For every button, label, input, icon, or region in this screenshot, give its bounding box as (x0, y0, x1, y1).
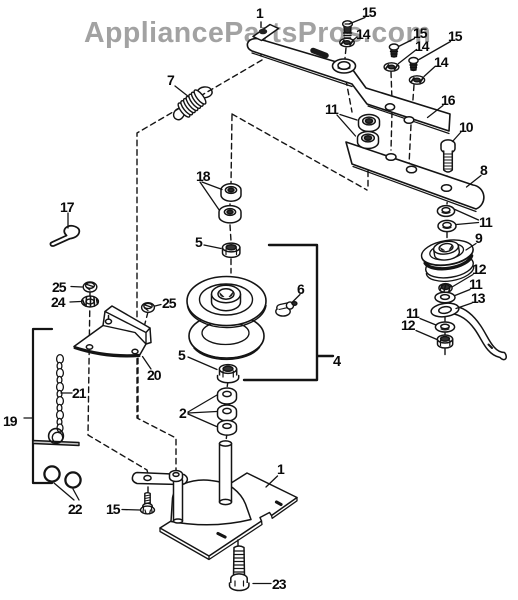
idler rod 13 (430, 302, 506, 360)
dashed center line pulley stack (226, 115, 232, 441)
bracket bar 16 (247, 39, 450, 134)
nut 5a (223, 243, 240, 257)
spacer washer 11 lower (358, 132, 379, 149)
bar 16 boss hole (333, 59, 356, 73)
svg-text:19: 19 (3, 413, 18, 429)
bracket line item 4 (244, 245, 333, 380)
svg-text:23: 23 (272, 576, 287, 592)
svg-text:21: 21 (72, 385, 87, 401)
flat washer 11c (435, 292, 455, 302)
dashed leader top-left of bar 16 (260, 22, 262, 57)
svg-text:14: 14 (415, 38, 430, 54)
svg-text:17: 17 (60, 199, 75, 215)
cotter pin 17 (50, 226, 79, 246)
svg-text:25: 25 (162, 295, 177, 311)
bar 8 hole b (407, 166, 417, 173)
link plate washer (170, 471, 183, 482)
flat washer 11d (435, 322, 454, 332)
flat washer 11 right b (438, 220, 456, 231)
dashed line bolt 10 to arm hole (447, 176, 448, 182)
svg-text:12: 12 (472, 261, 487, 277)
center post on plate (220, 441, 232, 505)
bolt 15c (409, 58, 418, 71)
dashed line pulley stack to idler arm hole (232, 114, 368, 190)
rings 22 (44, 466, 59, 481)
nut 5b (218, 365, 239, 383)
bolt 15a (343, 21, 353, 38)
svg-text:15: 15 (106, 501, 121, 517)
bar 16 hole c (404, 117, 414, 124)
lock washer 14a (340, 38, 354, 46)
bolt 15 bottom (141, 493, 155, 514)
washer 18b (219, 206, 241, 223)
flat washer 11 right a (437, 206, 454, 217)
lock washer 14b (384, 63, 399, 71)
chain anchor bar (33, 429, 79, 446)
pulley 9 (420, 237, 478, 285)
svg-text:5: 5 (178, 347, 186, 363)
belt guard hump on plate (171, 480, 251, 525)
washer 2a (218, 388, 237, 404)
lock nut 12a (439, 284, 452, 293)
flange nut 25b (142, 303, 155, 313)
svg-text:4: 4 (333, 354, 341, 370)
bar 8 hole a (386, 154, 396, 161)
svg-text:12: 12 (401, 317, 416, 333)
chain bracket 20 (74, 306, 151, 356)
dashed line bolt 15a to boss (345, 48, 346, 58)
flange nut 25a (83, 282, 97, 292)
lock washer 14c (409, 76, 424, 84)
link plate (132, 473, 187, 485)
dashed line arm hole to washers 11 (447, 193, 448, 204)
svg-text:2: 2 (179, 405, 187, 421)
bar 16 slot (313, 51, 326, 56)
dashed line washers 11 to pulley 9 (446, 232, 448, 239)
svg-text:13: 13 (471, 290, 486, 306)
bolt 15b (389, 44, 398, 57)
pulley 4 double sheave (187, 277, 266, 360)
bolt 23 (230, 546, 249, 590)
svg-text:25: 25 (52, 279, 67, 295)
bar 16 end tab (253, 25, 279, 41)
dashed line right nut 25 column (138, 312, 148, 418)
svg-text:1: 1 (256, 5, 264, 21)
chain 21 (57, 355, 64, 432)
svg-text:5: 5 (195, 234, 203, 250)
dashed center line through spring 7 (137, 60, 262, 470)
washer 2c (218, 420, 237, 435)
dashed line bar16 boss to washer 11 (346, 80, 352, 112)
grease fitting 6 (276, 302, 297, 316)
svg-text:7: 7 (167, 72, 175, 88)
dashed line left nut 25 column (88, 292, 148, 474)
svg-text:6: 6 (297, 281, 305, 297)
dashed line bolt 15b column (391, 72, 392, 150)
dashed center line pulley 9 stack (444, 303, 446, 356)
hex nut 12b (437, 335, 452, 348)
group bracket 19 (33, 329, 52, 483)
bolt 10 (441, 140, 455, 172)
dashed tick above bolt 15 bottom (147, 487, 149, 492)
svg-text:11: 11 (479, 214, 493, 230)
base plate 1 (160, 473, 297, 560)
dashed tick above bolt 23 (237, 540, 239, 546)
svg-text:1: 1 (277, 461, 285, 477)
lock washer 24 (82, 296, 99, 307)
bar 16 hole b (385, 104, 394, 110)
svg-text:22: 22 (68, 501, 83, 517)
spring 7 (174, 87, 213, 120)
post under link plate (174, 480, 183, 523)
svg-text:20: 20 (147, 367, 162, 383)
washer 2b (218, 405, 237, 421)
svg-text:14: 14 (434, 54, 449, 70)
svg-text:18: 18 (196, 168, 211, 184)
svg-text:14: 14 (356, 26, 371, 42)
bar 8 hole c (442, 185, 452, 192)
idler arm bar 8 (346, 142, 484, 212)
DASHED-LINES (88, 22, 448, 546)
svg-text:24: 24 (51, 294, 66, 310)
spacer washer 11 upper (359, 115, 380, 132)
dashed line bolt 15c column (409, 85, 414, 165)
washer 18a (221, 184, 241, 201)
